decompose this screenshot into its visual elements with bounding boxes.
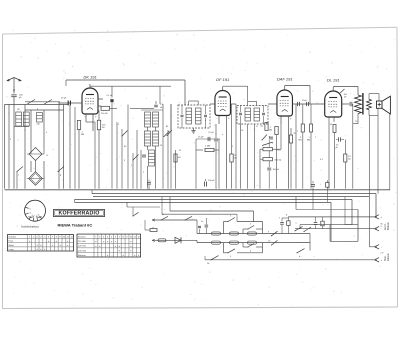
svg-text:Lang: Lang [9,249,15,251]
svg-text:6: 6 [48,237,49,239]
svg-text:Batterie: Batterie [78,254,86,257]
svg-text:Schalter: Schalter [9,236,17,239]
svg-text:Mittel: Mittel [9,244,15,247]
svg-text:batterie: batterie [387,253,390,261]
svg-text:6: 6 [115,237,116,239]
svg-text:0,1 µF: 0,1 µF [107,95,113,97]
svg-text:2: 2 [99,237,100,239]
svg-text:110 Volt: 110 Volt [78,240,86,243]
svg-text:Schalter: Schalter [78,236,86,239]
svg-text:MΩ: MΩ [307,140,311,142]
svg-text:2 MΩ: 2 MΩ [205,146,211,148]
svg-text:500 kΩ: 500 kΩ [101,113,108,115]
svg-text:MΩ: MΩ [299,140,303,142]
svg-text:5: 5 [44,237,45,239]
svg-text:DK 191: DK 191 [83,75,96,80]
svg-text:7: 7 [119,237,120,239]
svg-text:220 Volt: 220 Volt [78,249,86,252]
svg-text:240: 240 [37,124,40,126]
svg-text:8: 8 [56,237,57,239]
svg-text:Batterie: Batterie [387,221,390,230]
svg-text:10: 10 [63,237,65,239]
svg-text:9: 9 [60,237,61,239]
svg-text:3: 3 [103,237,104,239]
svg-text:500 kΩ: 500 kΩ [275,160,282,162]
svg-text:DL 191: DL 191 [327,78,340,83]
svg-text:MΩ: MΩ [269,130,273,132]
svg-text:Kurz: Kurz [9,240,14,243]
svg-text:25 µF: 25 µF [198,137,204,139]
svg-text:12: 12 [138,237,140,239]
svg-text:2: 2 [33,237,34,239]
svg-text:1 MΩ: 1 MΩ [276,150,281,152]
svg-text:9: 9 [126,237,127,239]
svg-text:12: 12 [71,237,73,239]
svg-text:.25 µF: .25 µF [208,132,214,134]
svg-text:5: 5 [111,237,112,239]
svg-text:DAF 191: DAF 191 [277,77,293,82]
svg-text:10: 10 [130,237,132,239]
svg-text:8: 8 [123,237,124,239]
svg-text:Anod.-: Anod.- [384,223,387,230]
svg-text:11: 11 [134,237,136,239]
svg-text:1: 1 [29,237,30,239]
svg-text:Heiz-: Heiz- [385,255,387,261]
svg-text:50 µF: 50 µF [61,98,67,100]
svg-text:Sockelschaltung: Sockelschaltung [21,225,39,228]
svg-text:MΩ: MΩ [81,134,85,136]
svg-text:4: 4 [40,237,41,239]
svg-text:11: 11 [67,237,69,239]
svg-text:15nF: 15nF [302,100,307,102]
svg-text:7: 7 [52,237,53,239]
svg-text:DF 191: DF 191 [216,77,229,82]
svg-text:LW: LW [17,109,20,111]
svg-text:KOFFERRADIO: KOFFERRADIO [58,211,99,217]
svg-text:125 Volt: 125 Volt [78,245,86,248]
svg-text:100 µF: 100 µF [273,169,280,171]
svg-text:1: 1 [95,237,96,239]
svg-text:4: 4 [107,237,108,239]
svg-text:100 µF: 100 µF [208,180,215,182]
svg-text:RIEWA Trabant 6C: RIEWA Trabant 6C [58,222,93,227]
svg-text:3: 3 [37,237,38,239]
